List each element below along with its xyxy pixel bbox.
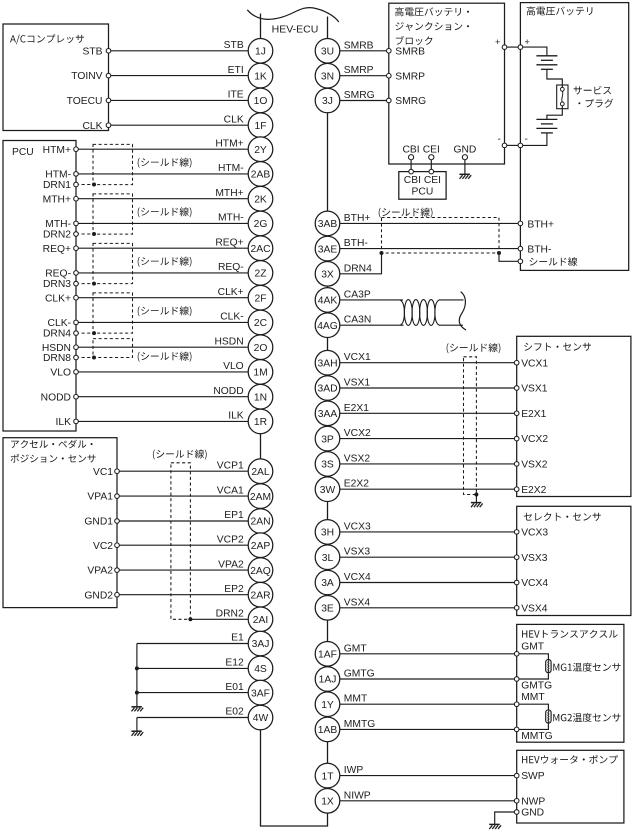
svg-text:PCU: PCU xyxy=(12,147,34,158)
svg-text:STB: STB xyxy=(82,46,102,57)
svg-text:VSX2: VSX2 xyxy=(521,460,548,471)
svg-text:NODD: NODD xyxy=(41,392,71,403)
svg-text:NIWP: NIWP xyxy=(344,790,371,801)
svg-text:SWP: SWP xyxy=(521,771,545,782)
svg-text:VCX4: VCX4 xyxy=(344,572,371,583)
svg-text:SMRP: SMRP xyxy=(395,71,425,82)
svg-text:HTM+: HTM+ xyxy=(43,145,71,156)
svg-text:E2X1: E2X1 xyxy=(521,409,546,420)
svg-text:STB: STB xyxy=(224,40,244,51)
svg-text:NODD: NODD xyxy=(213,386,243,397)
svg-text:VCX1: VCX1 xyxy=(344,352,371,363)
svg-text:2Z: 2Z xyxy=(254,269,266,280)
svg-text:MMTG: MMTG xyxy=(344,719,375,730)
svg-text:3AB: 3AB xyxy=(318,219,338,230)
svg-text:1AB: 1AB xyxy=(318,725,338,736)
svg-text:VC2: VC2 xyxy=(93,541,113,552)
svg-text:2F: 2F xyxy=(254,293,266,304)
svg-text:E1: E1 xyxy=(231,633,244,644)
svg-text:1O: 1O xyxy=(254,96,268,107)
svg-text:E02: E02 xyxy=(225,707,244,718)
svg-text:HTM-: HTM- xyxy=(45,170,71,181)
svg-text:VCX2: VCX2 xyxy=(521,434,548,445)
svg-text:-: - xyxy=(498,134,501,145)
svg-text:VSX2: VSX2 xyxy=(344,453,371,464)
svg-text:TOINV: TOINV xyxy=(71,71,102,82)
svg-text:GND2: GND2 xyxy=(84,590,113,601)
svg-text:HTM+: HTM+ xyxy=(215,138,243,149)
svg-text:MTH+: MTH+ xyxy=(215,188,243,199)
svg-text:VSX3: VSX3 xyxy=(521,553,548,564)
svg-text:GMT: GMT xyxy=(344,643,368,654)
svg-text:SMRB: SMRB xyxy=(344,40,374,51)
svg-text:VSX1: VSX1 xyxy=(521,384,548,395)
svg-text:3AE: 3AE xyxy=(318,244,338,255)
svg-text:DRN4: DRN4 xyxy=(344,263,372,274)
svg-text:E2X2: E2X2 xyxy=(344,479,369,490)
svg-text:1Y: 1Y xyxy=(321,700,334,711)
svg-text:GMTG: GMTG xyxy=(521,680,552,691)
svg-text:DRN2: DRN2 xyxy=(216,609,244,620)
svg-text:PCU: PCU xyxy=(412,187,434,198)
svg-text:MMT: MMT xyxy=(521,692,545,703)
svg-text:2AI: 2AI xyxy=(253,615,268,626)
svg-text:BTH-: BTH- xyxy=(344,238,368,249)
svg-text:3AA: 3AA xyxy=(318,409,338,420)
svg-text:VLO: VLO xyxy=(50,368,71,379)
svg-text:MMTG: MMTG xyxy=(521,731,552,742)
svg-text:3AF: 3AF xyxy=(251,688,270,699)
svg-text:2Y: 2Y xyxy=(254,145,267,156)
svg-text:-: - xyxy=(525,134,528,145)
svg-text:1J: 1J xyxy=(255,47,266,58)
svg-text:E01: E01 xyxy=(225,682,244,693)
svg-text:+: + xyxy=(525,37,530,47)
svg-text:VC1: VC1 xyxy=(93,467,113,478)
svg-text:3E: 3E xyxy=(321,604,334,615)
svg-text:DRN4: DRN4 xyxy=(43,329,71,340)
svg-text:CLK+: CLK+ xyxy=(218,287,244,298)
svg-text:3X: 3X xyxy=(321,270,334,281)
svg-text:1N: 1N xyxy=(254,392,267,403)
svg-text:EP2: EP2 xyxy=(224,584,244,595)
svg-text:ETI: ETI xyxy=(228,65,244,76)
svg-text:2AN: 2AN xyxy=(250,517,270,528)
svg-text:1AJ: 1AJ xyxy=(319,675,337,686)
svg-text:GND: GND xyxy=(521,808,544,819)
svg-text:VCA1: VCA1 xyxy=(217,485,244,496)
svg-text:CEI: CEI xyxy=(423,144,440,155)
svg-text:3W: 3W xyxy=(320,485,336,496)
svg-text:HSDN: HSDN xyxy=(215,336,244,347)
svg-text:SMRB: SMRB xyxy=(395,46,425,57)
svg-text:VCX3: VCX3 xyxy=(344,521,371,532)
svg-text:ILK: ILK xyxy=(228,411,244,422)
svg-text:4AK: 4AK xyxy=(318,296,338,307)
svg-text:GMTG: GMTG xyxy=(344,669,375,680)
svg-text:VLO: VLO xyxy=(223,361,244,372)
svg-text:VCX3: VCX3 xyxy=(521,528,548,539)
svg-text:VPA1: VPA1 xyxy=(87,492,113,503)
svg-text:CLK+: CLK+ xyxy=(45,293,71,304)
svg-text:MMT: MMT xyxy=(344,694,368,705)
svg-text:REQ-: REQ- xyxy=(45,269,71,280)
svg-text:DRN1: DRN1 xyxy=(43,180,71,191)
svg-text:3L: 3L xyxy=(322,553,334,564)
svg-text:DRN8: DRN8 xyxy=(43,353,71,364)
svg-text:3A: 3A xyxy=(321,578,334,589)
svg-text:1AF: 1AF xyxy=(318,650,337,661)
svg-text:1K: 1K xyxy=(254,71,267,82)
svg-text:1M: 1M xyxy=(253,368,267,379)
svg-text:VCP1: VCP1 xyxy=(217,460,244,471)
svg-text:VCX4: VCX4 xyxy=(521,578,548,589)
svg-text:BTH+: BTH+ xyxy=(344,213,371,224)
svg-text:2AB: 2AB xyxy=(251,170,271,181)
svg-text:REQ-: REQ- xyxy=(218,262,244,273)
svg-text:NWP: NWP xyxy=(521,796,545,807)
svg-text:VCP2: VCP2 xyxy=(217,534,244,545)
svg-text:3U: 3U xyxy=(321,47,334,58)
svg-text:1T: 1T xyxy=(321,771,334,782)
svg-text:2AR: 2AR xyxy=(250,590,270,601)
svg-text:CA3N: CA3N xyxy=(344,315,371,326)
svg-text:BTH+: BTH+ xyxy=(527,219,554,230)
svg-text:SMRG: SMRG xyxy=(395,96,426,107)
svg-text:SMRP: SMRP xyxy=(344,65,374,76)
svg-text:2AC: 2AC xyxy=(250,244,271,255)
svg-text:IWP: IWP xyxy=(344,765,364,776)
svg-text:CBI: CBI xyxy=(403,144,420,155)
svg-text:GND: GND xyxy=(453,144,476,155)
svg-text:2C: 2C xyxy=(254,318,268,329)
svg-text:DRN3: DRN3 xyxy=(43,279,71,290)
svg-text:EP1: EP1 xyxy=(224,510,244,521)
svg-text:2AP: 2AP xyxy=(251,541,271,552)
svg-text:REQ+: REQ+ xyxy=(215,237,243,248)
svg-text:VSX3: VSX3 xyxy=(344,547,371,558)
svg-text:TOECU: TOECU xyxy=(67,96,103,107)
svg-text:REQ+: REQ+ xyxy=(43,244,71,255)
svg-text:CBI CEI: CBI CEI xyxy=(404,175,441,186)
svg-text:3N: 3N xyxy=(321,71,334,82)
svg-text:VSX4: VSX4 xyxy=(521,603,548,614)
svg-text:2AL: 2AL xyxy=(251,467,270,478)
svg-text:VSX4: VSX4 xyxy=(344,597,371,608)
svg-text:CLK: CLK xyxy=(224,114,244,125)
svg-text:GMT: GMT xyxy=(521,642,545,653)
svg-text:ITE: ITE xyxy=(228,90,244,101)
svg-text:VPA2: VPA2 xyxy=(218,559,244,570)
svg-text:E2X2: E2X2 xyxy=(521,485,546,496)
svg-text:3S: 3S xyxy=(321,460,334,471)
svg-text:1R: 1R xyxy=(254,417,267,428)
svg-text:1F: 1F xyxy=(254,121,266,132)
svg-text:3H: 3H xyxy=(321,528,334,539)
svg-text:2AM: 2AM xyxy=(250,492,271,503)
svg-text:GND1: GND1 xyxy=(84,517,113,528)
svg-text:VSX1: VSX1 xyxy=(344,378,371,389)
svg-text:E2X1: E2X1 xyxy=(344,403,369,414)
svg-text:3AJ: 3AJ xyxy=(252,639,270,650)
svg-text:CLK-: CLK- xyxy=(220,312,243,323)
svg-text:HTM-: HTM- xyxy=(218,163,244,174)
svg-text:2K: 2K xyxy=(254,194,267,205)
svg-text:2O: 2O xyxy=(254,343,268,354)
svg-text:4AG: 4AG xyxy=(317,321,338,332)
svg-text:2G: 2G xyxy=(254,219,268,230)
svg-text:3AD: 3AD xyxy=(317,384,337,395)
svg-text:+: + xyxy=(495,37,500,47)
svg-text:4S: 4S xyxy=(254,664,267,675)
svg-text:HEV-ECU: HEV-ECU xyxy=(272,24,319,36)
svg-text:2AQ: 2AQ xyxy=(250,566,271,577)
svg-text:CLK-: CLK- xyxy=(48,318,71,329)
svg-text:DRN2: DRN2 xyxy=(43,230,71,241)
svg-text:MTH-: MTH- xyxy=(218,213,244,224)
svg-text:1X: 1X xyxy=(321,797,334,808)
svg-text:CA3P: CA3P xyxy=(344,289,371,300)
svg-text:MTH+: MTH+ xyxy=(43,194,71,205)
svg-text:4W: 4W xyxy=(253,713,269,724)
svg-text:VPA2: VPA2 xyxy=(87,566,113,577)
svg-text:3P: 3P xyxy=(321,434,334,445)
svg-text:BTH-: BTH- xyxy=(527,245,551,256)
svg-text:E12: E12 xyxy=(225,658,244,669)
svg-text:3J: 3J xyxy=(322,96,333,107)
svg-text:VCX1: VCX1 xyxy=(521,358,548,369)
svg-text:MTH-: MTH- xyxy=(45,219,71,230)
svg-text:SMRG: SMRG xyxy=(344,90,375,101)
svg-text:VCX2: VCX2 xyxy=(344,428,371,439)
svg-text:ILK: ILK xyxy=(56,417,72,428)
svg-text:3AH: 3AH xyxy=(317,358,337,369)
